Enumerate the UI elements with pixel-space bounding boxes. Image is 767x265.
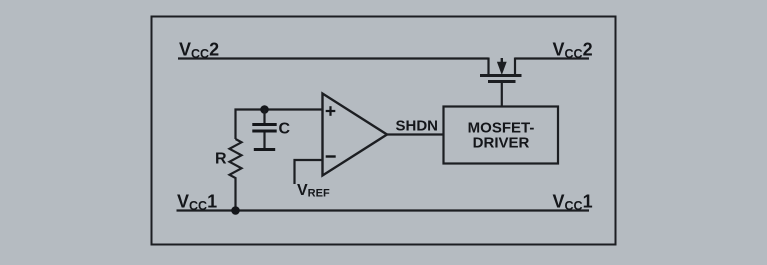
svg-text:VCC1: VCC1 [177, 192, 217, 214]
wire op-amp output to driver (SHDN net) [387, 133, 444, 135]
wire op-amp - input to VREF [295, 160, 323, 184]
capacitor C [252, 110, 276, 150]
label SHDN [396, 118, 439, 135]
block U2 MOSFET-DRIVER [444, 107, 559, 164]
label VCC1 (bottom left) [177, 192, 217, 214]
svg-text:VREF: VREF [297, 182, 330, 200]
label C [279, 121, 291, 138]
svg-text:VCC1: VCC1 [553, 192, 593, 214]
junction dot resistor to VCC1 [231, 206, 240, 215]
svg-text:VCC2: VCC2 [553, 40, 593, 62]
label VREF [297, 182, 330, 200]
wire node A: + input wire (resistor top to op-amp +) [236, 110, 323, 140]
svg-text:R: R [215, 151, 227, 168]
transistor Q1 (P-channel MOSFET pass element) [480, 58, 522, 82]
label R [215, 151, 227, 168]
junction node A dot [260, 105, 269, 114]
svg-text:SHDN: SHDN [396, 118, 439, 135]
net VCC2 rail (top), right segment [515, 57, 589, 59]
svg-text:DRIVER: DRIVER [473, 135, 530, 152]
op-amp U1 (comparator) [323, 94, 388, 176]
resistor R [230, 139, 242, 211]
label VCC1 (bottom right) [553, 192, 593, 214]
label VCC2 (top left) [179, 40, 219, 62]
svg-text:C: C [279, 121, 291, 138]
wire gate lead from Q1 to driver [501, 82, 503, 107]
net VCC2 rail (top), left segment [178, 57, 489, 59]
label VCC2 (top right) [553, 40, 593, 62]
net VCC1 rail (bottom) [177, 209, 590, 211]
svg-text:VCC2: VCC2 [179, 40, 219, 62]
